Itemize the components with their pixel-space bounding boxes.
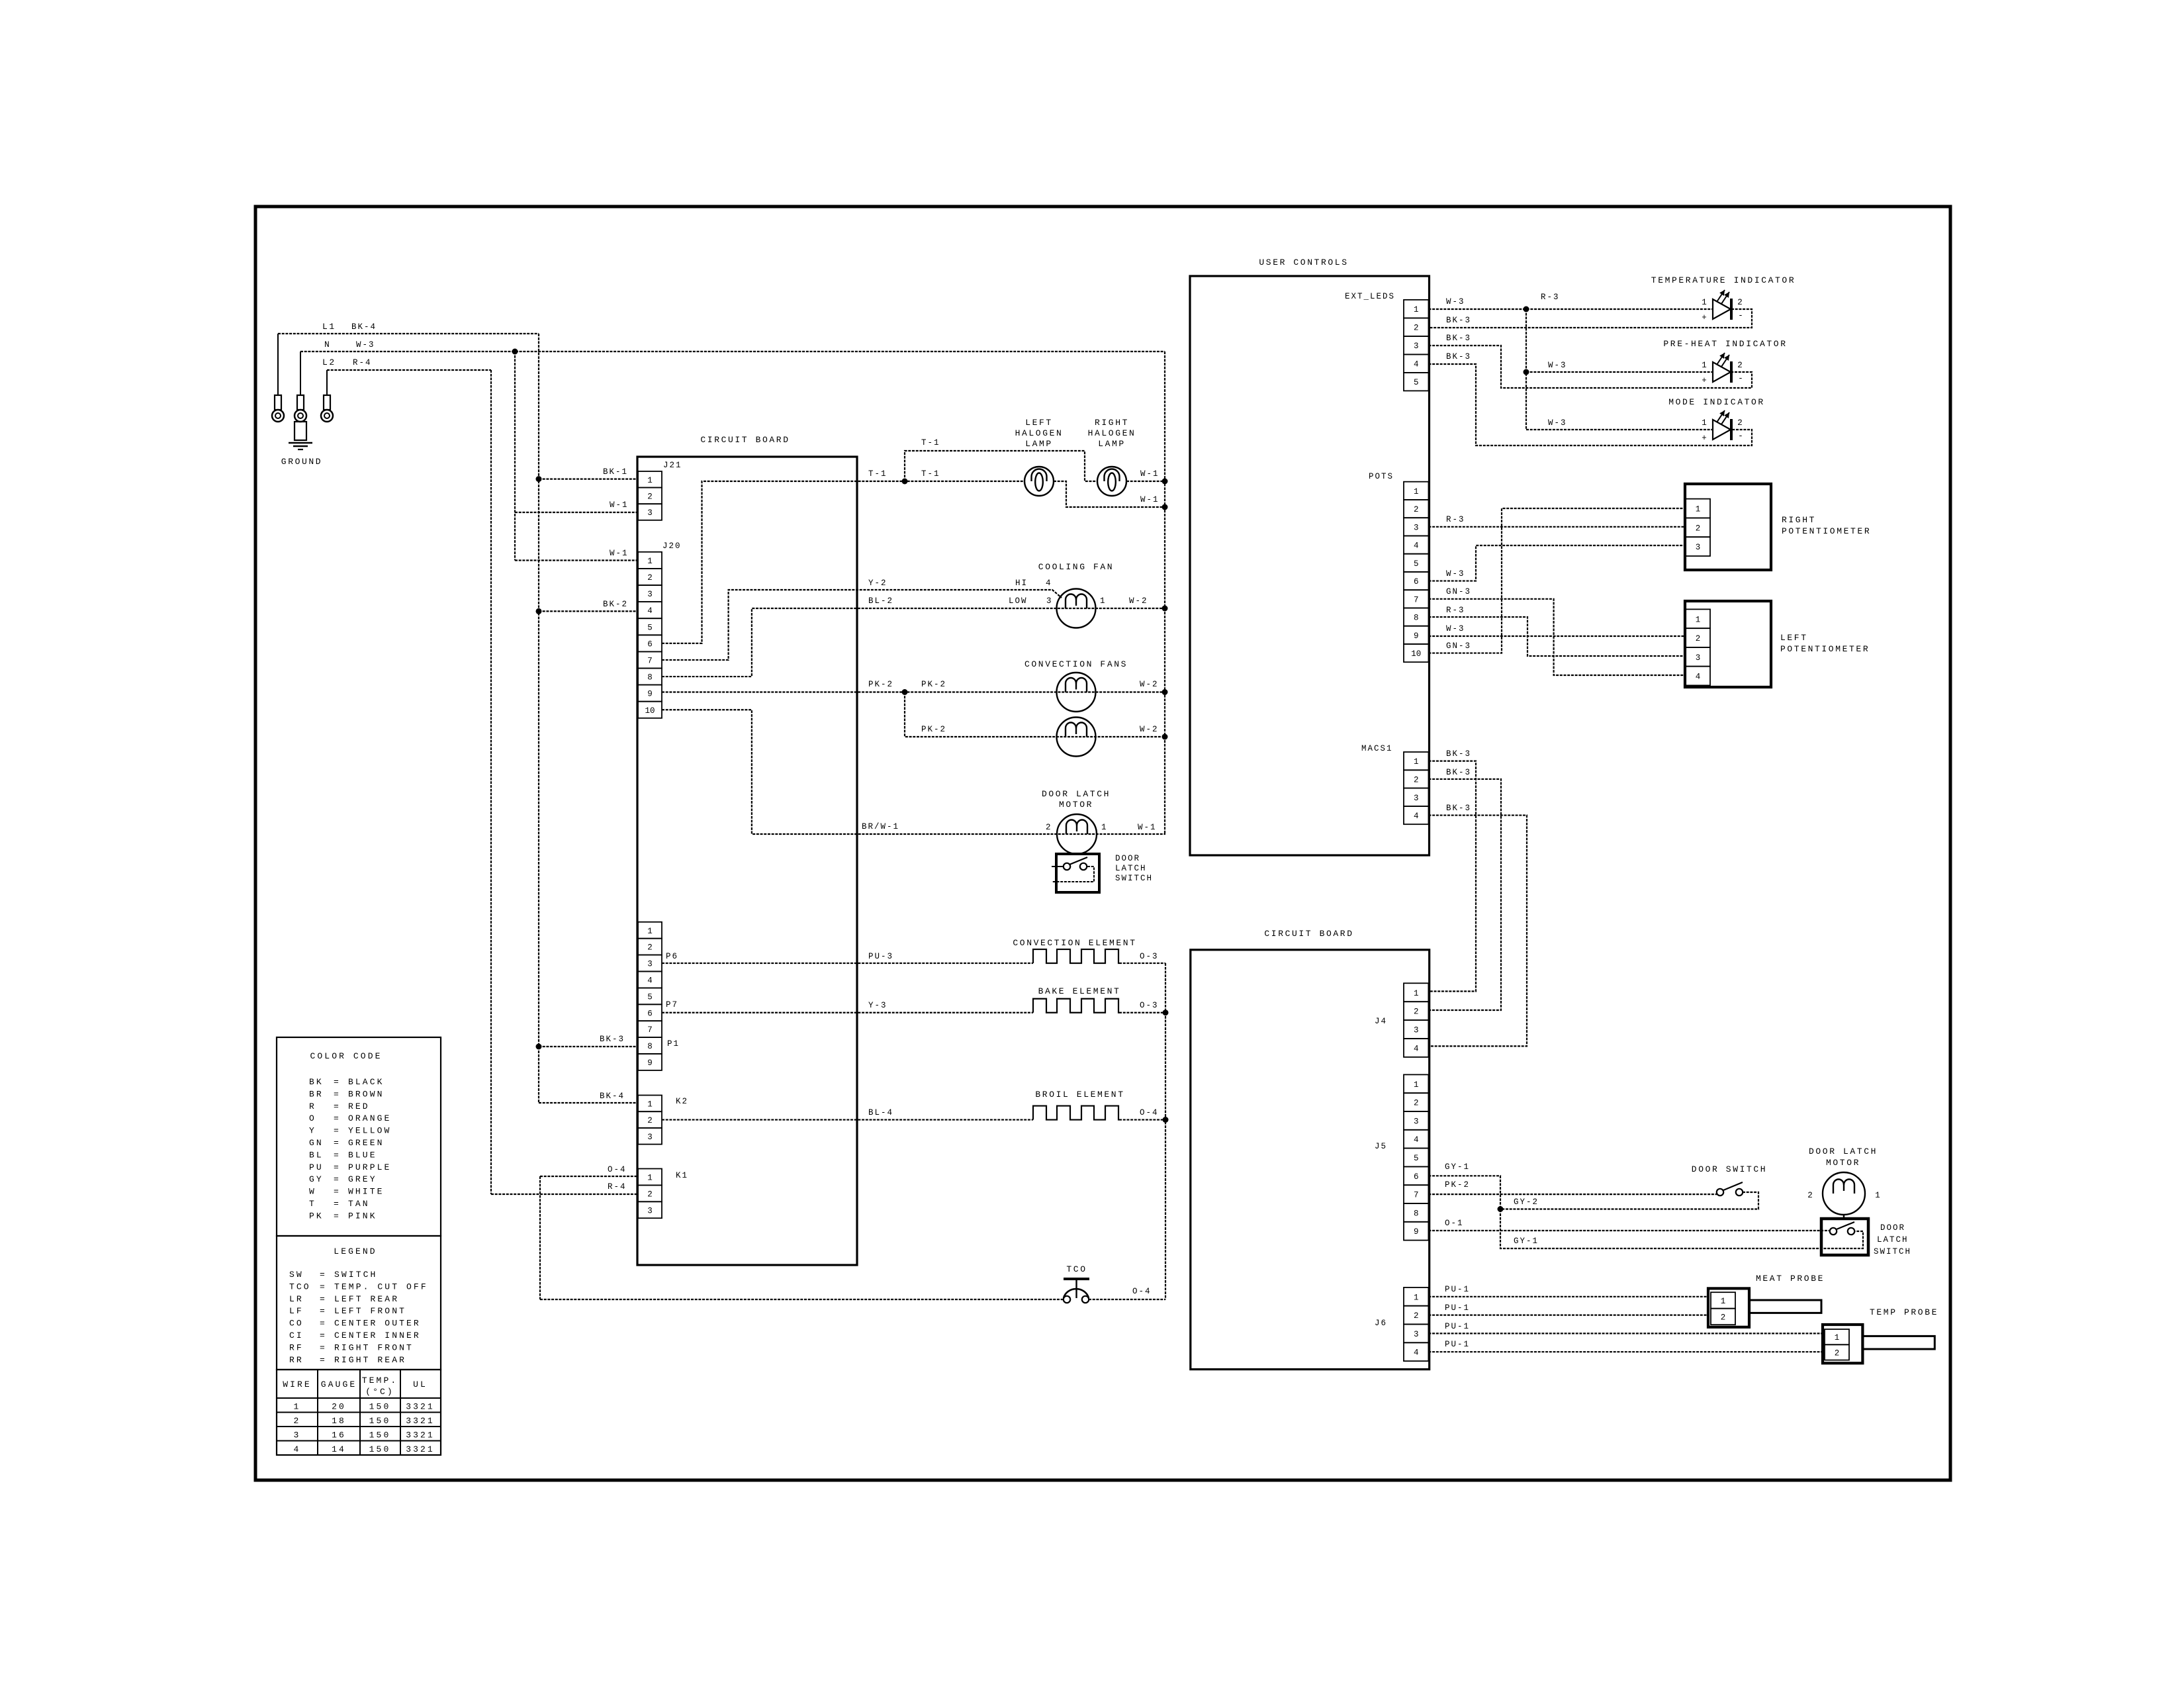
- svg-text:RR: RR: [289, 1355, 304, 1365]
- svg-text:CONVECTION FANS: CONVECTION FANS: [1024, 659, 1128, 669]
- svg-text:150: 150: [369, 1416, 391, 1426]
- svg-text:W-1: W-1: [1140, 495, 1160, 504]
- svg-text:1: 1: [647, 476, 653, 485]
- svg-text:L1: L1: [322, 322, 336, 332]
- svg-text:LEGEND: LEGEND: [334, 1246, 377, 1256]
- svg-text:3: 3: [1414, 1330, 1419, 1339]
- svg-text:+: +: [1702, 313, 1707, 322]
- svg-text:W-1: W-1: [1138, 823, 1157, 832]
- svg-text:HALOGEN: HALOGEN: [1015, 428, 1064, 438]
- svg-text:+: +: [1702, 376, 1707, 385]
- svg-text:3: 3: [1696, 543, 1701, 552]
- svg-text:HALOGEN: HALOGEN: [1088, 428, 1136, 438]
- svg-text:BL-2: BL-2: [868, 596, 893, 606]
- svg-text:PU-1: PU-1: [1445, 1340, 1470, 1349]
- svg-text:2: 2: [647, 943, 653, 953]
- svg-text:10: 10: [645, 706, 655, 716]
- svg-text:K1: K1: [676, 1171, 688, 1180]
- svg-text:MODE INDICATOR: MODE INDICATOR: [1668, 397, 1765, 407]
- svg-text:=: =: [334, 1187, 341, 1197]
- svg-text:9: 9: [1414, 632, 1419, 641]
- svg-text:LEFT: LEFT: [1780, 633, 1808, 643]
- svg-text:6: 6: [647, 1009, 653, 1018]
- svg-text:GY: GY: [309, 1174, 324, 1184]
- svg-text:7: 7: [647, 1025, 653, 1035]
- svg-text:=: =: [320, 1331, 327, 1340]
- svg-text:RIGHT: RIGHT: [1782, 515, 1816, 525]
- svg-text:BK-3: BK-3: [600, 1035, 625, 1044]
- svg-text:LEFT REAR: LEFT REAR: [334, 1294, 399, 1304]
- svg-text:J20: J20: [662, 541, 682, 551]
- svg-text:R-4: R-4: [608, 1182, 627, 1192]
- svg-text:TEMP.: TEMP.: [362, 1376, 398, 1385]
- svg-text:O-4: O-4: [1140, 1108, 1159, 1117]
- svg-text:150: 150: [369, 1444, 391, 1454]
- svg-text:1: 1: [1875, 1191, 1880, 1200]
- svg-text:PRE-HEAT INDICATOR: PRE-HEAT INDICATOR: [1663, 339, 1787, 349]
- svg-text:3321: 3321: [406, 1444, 435, 1454]
- svg-text:GREY: GREY: [348, 1174, 377, 1184]
- svg-text:N: N: [324, 340, 331, 350]
- svg-text:CENTER OUTER: CENTER OUTER: [334, 1319, 421, 1329]
- svg-text:W-1: W-1: [1140, 469, 1160, 479]
- svg-text:BAKE ELEMENT: BAKE ELEMENT: [1038, 986, 1121, 996]
- svg-text:2: 2: [1046, 823, 1052, 832]
- svg-text:RED: RED: [348, 1102, 370, 1111]
- svg-text:+: +: [1702, 434, 1707, 443]
- svg-text:TEMP PROBE: TEMP PROBE: [1870, 1307, 1938, 1317]
- svg-text:1: 1: [1414, 1293, 1419, 1302]
- svg-text:8: 8: [647, 1042, 653, 1051]
- svg-text:BLACK: BLACK: [348, 1077, 385, 1087]
- svg-text:O-4: O-4: [1132, 1287, 1152, 1296]
- svg-text:MEAT PROBE: MEAT PROBE: [1756, 1274, 1825, 1284]
- svg-text:4: 4: [1414, 360, 1419, 369]
- svg-text:MOTOR: MOTOR: [1826, 1158, 1860, 1168]
- svg-text:O-4: O-4: [608, 1165, 627, 1174]
- svg-text:ORANGE: ORANGE: [348, 1113, 391, 1123]
- svg-text:1: 1: [1414, 1080, 1419, 1090]
- svg-text:4: 4: [294, 1444, 301, 1454]
- svg-text:PU-1: PU-1: [1445, 1322, 1470, 1331]
- svg-text:PU: PU: [309, 1162, 324, 1172]
- svg-text:PK-2: PK-2: [868, 680, 893, 689]
- svg-text:3: 3: [647, 1133, 653, 1142]
- svg-text:W-2: W-2: [1129, 596, 1148, 606]
- svg-text:7: 7: [647, 656, 653, 665]
- svg-text:8: 8: [647, 673, 653, 682]
- svg-text:CIRCUIT BOARD: CIRCUIT BOARD: [1264, 929, 1353, 939]
- svg-text:W-3: W-3: [1446, 297, 1465, 306]
- svg-text:PK-2: PK-2: [921, 725, 946, 734]
- svg-text:W-1: W-1: [610, 549, 629, 558]
- svg-text:3321: 3321: [406, 1416, 435, 1426]
- svg-text:DOOR: DOOR: [1880, 1223, 1905, 1233]
- svg-text:2: 2: [1414, 1099, 1419, 1108]
- svg-text:1: 1: [1702, 361, 1707, 370]
- svg-text:150: 150: [369, 1430, 391, 1440]
- svg-text:4: 4: [1046, 579, 1052, 588]
- svg-text:7: 7: [1414, 1191, 1419, 1200]
- svg-text:2: 2: [1737, 361, 1743, 370]
- svg-text:2: 2: [1414, 324, 1419, 333]
- svg-text:LATCH: LATCH: [1877, 1235, 1909, 1244]
- svg-text:LAMP: LAMP: [1025, 439, 1053, 449]
- svg-text:HI: HI: [1015, 579, 1028, 588]
- svg-text:PK: PK: [309, 1211, 324, 1221]
- svg-text:GN-3: GN-3: [1446, 641, 1471, 651]
- svg-text:GAUGE: GAUGE: [321, 1380, 357, 1389]
- svg-text:-: -: [1738, 374, 1743, 383]
- svg-text:POTENTIOMETER: POTENTIOMETER: [1780, 644, 1870, 654]
- svg-text:2: 2: [1835, 1348, 1840, 1358]
- svg-text:POTENTIOMETER: POTENTIOMETER: [1782, 526, 1871, 536]
- svg-text:=: =: [334, 1102, 341, 1111]
- svg-text:4: 4: [1414, 1135, 1419, 1145]
- svg-text:150: 150: [369, 1402, 391, 1412]
- svg-text:DOOR LATCH: DOOR LATCH: [1042, 789, 1111, 799]
- svg-text:GY-2: GY-2: [1514, 1197, 1539, 1207]
- svg-text:8: 8: [1414, 614, 1419, 623]
- svg-text:BK-3: BK-3: [1446, 352, 1471, 361]
- svg-text:COOLING FAN: COOLING FAN: [1038, 562, 1114, 572]
- svg-text:PU-1: PU-1: [1445, 1303, 1470, 1313]
- svg-text:4: 4: [1696, 673, 1701, 682]
- svg-text:1: 1: [647, 927, 653, 936]
- svg-text:6: 6: [1414, 577, 1419, 586]
- svg-text:1: 1: [647, 557, 653, 566]
- svg-text:COLOR CODE: COLOR CODE: [310, 1051, 383, 1061]
- svg-text:=: =: [334, 1150, 341, 1160]
- svg-text:3: 3: [647, 590, 653, 599]
- svg-text:PU-1: PU-1: [1445, 1285, 1470, 1294]
- svg-text:LAMP: LAMP: [1098, 439, 1126, 449]
- svg-text:LATCH: LATCH: [1115, 864, 1147, 873]
- svg-text:6: 6: [647, 639, 653, 649]
- svg-text:BK-3: BK-3: [1446, 768, 1471, 777]
- svg-text:10: 10: [1411, 649, 1421, 659]
- svg-text:16: 16: [332, 1430, 346, 1440]
- svg-text:P6: P6: [666, 952, 678, 961]
- svg-text:O: O: [309, 1113, 316, 1123]
- svg-text:DOOR LATCH: DOOR LATCH: [1809, 1147, 1878, 1156]
- svg-text:PK-2: PK-2: [921, 680, 946, 689]
- svg-text:GN-3: GN-3: [1446, 587, 1471, 596]
- svg-text:W-3: W-3: [1548, 361, 1567, 370]
- svg-text:1: 1: [647, 1173, 653, 1182]
- svg-text:K2: K2: [676, 1097, 688, 1106]
- svg-text:4: 4: [1414, 1348, 1419, 1358]
- svg-text:1: 1: [294, 1402, 301, 1412]
- svg-text:LEFT: LEFT: [1025, 418, 1053, 428]
- svg-text:W: W: [309, 1187, 316, 1197]
- svg-text:W-1: W-1: [610, 500, 629, 510]
- svg-text:2: 2: [1737, 298, 1743, 307]
- svg-text:1: 1: [1721, 1297, 1726, 1306]
- svg-text:3: 3: [1046, 596, 1053, 606]
- svg-text:5: 5: [1414, 559, 1419, 569]
- svg-text:RF: RF: [289, 1342, 304, 1352]
- svg-text:14: 14: [332, 1444, 346, 1454]
- svg-text:9: 9: [647, 1058, 653, 1068]
- svg-text:PINK: PINK: [348, 1211, 377, 1221]
- svg-text:YELLOW: YELLOW: [348, 1126, 391, 1136]
- svg-text:L2: L2: [322, 357, 336, 367]
- svg-text:7: 7: [1414, 595, 1419, 604]
- svg-text:=: =: [334, 1077, 341, 1087]
- svg-text:6: 6: [1414, 1172, 1419, 1182]
- svg-text:T-1: T-1: [921, 469, 940, 479]
- svg-text:R-4: R-4: [353, 358, 372, 367]
- svg-text:1: 1: [1702, 298, 1707, 307]
- svg-text:P1: P1: [667, 1039, 680, 1049]
- svg-text:BK-4: BK-4: [600, 1092, 625, 1101]
- svg-text:=: =: [320, 1355, 327, 1365]
- svg-text:BK-3: BK-3: [1446, 316, 1471, 325]
- svg-text:5: 5: [1414, 378, 1419, 387]
- svg-text:3: 3: [1414, 342, 1419, 351]
- svg-text:2: 2: [647, 492, 653, 501]
- svg-text:BR: BR: [309, 1089, 324, 1099]
- svg-text:R-3: R-3: [1541, 293, 1560, 302]
- svg-text:2: 2: [1807, 1191, 1813, 1200]
- svg-text:=: =: [334, 1138, 341, 1148]
- svg-text:DOOR: DOOR: [1115, 854, 1140, 863]
- svg-text:BR/W-1: BR/W-1: [862, 822, 899, 831]
- svg-text:18: 18: [332, 1416, 346, 1426]
- svg-text:3: 3: [1414, 1026, 1419, 1035]
- svg-text:2: 2: [1414, 505, 1419, 514]
- svg-text:=: =: [334, 1199, 341, 1209]
- svg-text:RIGHT: RIGHT: [1095, 418, 1129, 428]
- svg-text:Y: Y: [309, 1126, 316, 1136]
- svg-text:2: 2: [1414, 1311, 1419, 1321]
- svg-text:W-2: W-2: [1140, 725, 1159, 734]
- svg-text:W-3: W-3: [1446, 569, 1465, 579]
- svg-text:1: 1: [1414, 305, 1419, 314]
- svg-text:=: =: [334, 1162, 341, 1172]
- svg-text:BK-4: BK-4: [351, 322, 377, 332]
- svg-text:LF: LF: [289, 1306, 304, 1316]
- svg-text:1: 1: [1100, 596, 1107, 606]
- svg-text:1: 1: [1835, 1333, 1840, 1342]
- svg-text:1: 1: [1414, 989, 1419, 998]
- svg-text:MOTOR: MOTOR: [1059, 800, 1093, 810]
- svg-text:W-3: W-3: [1548, 418, 1567, 428]
- svg-text:CONVECTION ELEMENT: CONVECTION ELEMENT: [1013, 938, 1136, 948]
- svg-text:=: =: [320, 1306, 327, 1316]
- svg-text:9: 9: [1414, 1227, 1419, 1237]
- svg-text:CO: CO: [289, 1319, 304, 1329]
- svg-text:P7: P7: [666, 1000, 678, 1009]
- svg-text:8: 8: [1414, 1209, 1419, 1218]
- svg-text:WHITE: WHITE: [348, 1187, 385, 1197]
- svg-text:=: =: [334, 1174, 341, 1184]
- svg-text:4: 4: [1414, 1044, 1419, 1053]
- svg-text:CI: CI: [289, 1331, 304, 1340]
- svg-text:2: 2: [1414, 775, 1419, 784]
- svg-text:LOW: LOW: [1009, 596, 1028, 606]
- svg-text:LEFT FRONT: LEFT FRONT: [334, 1306, 406, 1316]
- svg-text:2: 2: [1721, 1313, 1726, 1322]
- svg-text:O-1: O-1: [1445, 1219, 1464, 1228]
- svg-text:3: 3: [647, 960, 653, 969]
- svg-text:UL: UL: [413, 1380, 428, 1389]
- svg-text:1: 1: [1414, 757, 1419, 767]
- svg-text:5: 5: [647, 992, 653, 1002]
- svg-text:SWITCH: SWITCH: [1874, 1247, 1911, 1256]
- svg-text:BROIL ELEMENT: BROIL ELEMENT: [1035, 1090, 1124, 1100]
- svg-text:USER CONTROLS: USER CONTROLS: [1259, 258, 1348, 267]
- svg-text:T: T: [309, 1199, 316, 1209]
- svg-text:Y-2: Y-2: [868, 579, 887, 588]
- svg-text:3: 3: [1414, 523, 1419, 532]
- svg-text:4: 4: [1414, 541, 1419, 551]
- svg-text:3: 3: [294, 1430, 301, 1440]
- svg-text:J6: J6: [1375, 1319, 1387, 1328]
- svg-text:BL: BL: [309, 1150, 324, 1160]
- svg-text:W-3: W-3: [356, 340, 375, 350]
- svg-text:9: 9: [647, 690, 653, 699]
- svg-text:-: -: [1738, 311, 1743, 320]
- svg-text:J5: J5: [1375, 1142, 1387, 1151]
- svg-text:CENTER INNER: CENTER INNER: [334, 1331, 421, 1340]
- svg-text:BLUE: BLUE: [348, 1150, 377, 1160]
- svg-text:BK-3: BK-3: [1446, 804, 1471, 813]
- svg-text:(°C): (°C): [365, 1387, 394, 1397]
- svg-text:GROUND: GROUND: [281, 457, 322, 467]
- svg-text:=: =: [320, 1342, 327, 1352]
- svg-text:BK: BK: [309, 1077, 324, 1087]
- svg-text:1: 1: [1101, 823, 1108, 832]
- svg-text:WIRE: WIRE: [283, 1380, 312, 1389]
- svg-text:2: 2: [294, 1416, 301, 1426]
- svg-text:=: =: [320, 1294, 327, 1304]
- svg-text:BK-3: BK-3: [1446, 334, 1471, 343]
- svg-text:3: 3: [1414, 794, 1419, 803]
- svg-text:BL-4: BL-4: [868, 1108, 893, 1117]
- svg-text:=: =: [334, 1113, 341, 1123]
- svg-text:5: 5: [647, 623, 653, 632]
- svg-text:=: =: [334, 1211, 341, 1221]
- svg-text:DOOR SWITCH: DOOR SWITCH: [1692, 1164, 1767, 1174]
- svg-text:3: 3: [647, 1206, 653, 1215]
- svg-text:J21: J21: [663, 461, 682, 470]
- svg-text:=: =: [320, 1319, 327, 1329]
- svg-text:1: 1: [1696, 615, 1701, 624]
- svg-text:GY-1: GY-1: [1514, 1237, 1539, 1246]
- svg-text:POTS: POTS: [1369, 472, 1394, 481]
- svg-text:2: 2: [647, 1190, 653, 1199]
- svg-text:-: -: [1738, 432, 1743, 441]
- svg-text:3: 3: [647, 508, 653, 518]
- svg-text:BK-3: BK-3: [1446, 749, 1471, 759]
- svg-text:=: =: [334, 1089, 341, 1099]
- svg-text:TAN: TAN: [348, 1199, 370, 1209]
- svg-text:GY-1: GY-1: [1445, 1162, 1470, 1172]
- svg-text:4: 4: [647, 606, 653, 616]
- svg-text:GN: GN: [309, 1138, 324, 1148]
- svg-text:2: 2: [647, 1116, 653, 1125]
- svg-text:TEMPERATURE INDICATOR: TEMPERATURE INDICATOR: [1651, 275, 1796, 285]
- svg-text:2: 2: [1414, 1008, 1419, 1017]
- svg-text:BK-2: BK-2: [603, 600, 628, 609]
- svg-text:20: 20: [332, 1402, 346, 1412]
- svg-text:Y-3: Y-3: [868, 1001, 887, 1010]
- svg-text:TCO: TCO: [289, 1282, 311, 1291]
- svg-text:=: =: [320, 1270, 327, 1280]
- svg-text:3: 3: [1414, 1117, 1419, 1126]
- svg-text:4: 4: [1414, 812, 1419, 821]
- svg-text:1: 1: [1696, 505, 1701, 514]
- svg-text:R: R: [309, 1102, 316, 1111]
- svg-text:2: 2: [647, 573, 653, 583]
- svg-text:PU-3: PU-3: [868, 952, 893, 961]
- svg-text:W-3: W-3: [1446, 624, 1465, 633]
- svg-text:RIGHT REAR: RIGHT REAR: [334, 1355, 406, 1365]
- svg-text:=: =: [334, 1126, 341, 1136]
- svg-text:SWITCH: SWITCH: [334, 1270, 377, 1280]
- svg-text:LR: LR: [289, 1294, 304, 1304]
- svg-text:T-1: T-1: [921, 438, 940, 447]
- svg-text:2: 2: [1737, 418, 1743, 428]
- svg-text:T-1: T-1: [868, 469, 887, 479]
- svg-text:4: 4: [647, 976, 653, 985]
- svg-text:3: 3: [1696, 653, 1701, 663]
- svg-text:2: 2: [1696, 524, 1701, 533]
- svg-text:RIGHT FRONT: RIGHT FRONT: [334, 1342, 414, 1352]
- svg-text:O-3: O-3: [1140, 1001, 1159, 1010]
- svg-text:SW: SW: [289, 1270, 304, 1280]
- svg-text:EXT_LEDS: EXT_LEDS: [1345, 292, 1395, 301]
- svg-text:O-3: O-3: [1140, 952, 1159, 961]
- svg-text:1: 1: [647, 1100, 653, 1109]
- svg-text:TCO: TCO: [1066, 1264, 1087, 1274]
- svg-text:3321: 3321: [406, 1430, 435, 1440]
- svg-text:BK-1: BK-1: [603, 467, 628, 477]
- svg-text:J4: J4: [1375, 1017, 1387, 1026]
- svg-text:TEMP. CUT OFF: TEMP. CUT OFF: [334, 1282, 428, 1291]
- svg-text:=: =: [320, 1282, 327, 1291]
- svg-text:PURPLE: PURPLE: [348, 1162, 391, 1172]
- svg-text:CIRCUIT BOARD: CIRCUIT BOARD: [700, 435, 790, 445]
- svg-text:5: 5: [1414, 1154, 1419, 1163]
- svg-text:R-3: R-3: [1446, 606, 1465, 615]
- svg-text:PK-2: PK-2: [1445, 1180, 1470, 1190]
- svg-text:GREEN: GREEN: [348, 1138, 385, 1148]
- svg-text:MACS1: MACS1: [1361, 744, 1393, 753]
- svg-text:SWITCH: SWITCH: [1115, 874, 1153, 883]
- svg-text:1: 1: [1702, 418, 1707, 428]
- svg-text:1: 1: [1414, 487, 1419, 496]
- svg-text:R-3: R-3: [1446, 515, 1465, 524]
- svg-text:BROWN: BROWN: [348, 1089, 385, 1099]
- svg-text:W-2: W-2: [1140, 680, 1159, 689]
- svg-text:3321: 3321: [406, 1402, 435, 1412]
- svg-text:2: 2: [1696, 634, 1701, 643]
